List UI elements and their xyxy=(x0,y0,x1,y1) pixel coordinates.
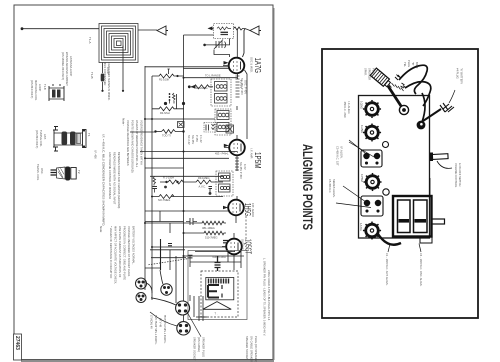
svg-text:TO L RANGE: TO L RANGE xyxy=(205,74,221,78)
svg-text:R4-NSH: R4-NSH xyxy=(160,111,170,115)
speaker unit outer box xyxy=(188,251,247,320)
svg-text:"A" BATTERY: "A" BATTERY xyxy=(460,68,464,84)
IF can trimmers 2 xyxy=(361,196,383,216)
tube socket 1Q5G xyxy=(363,100,381,118)
speaker plug circle xyxy=(177,322,190,335)
wire bottom slant xyxy=(148,259,188,265)
wire rows 150s xyxy=(140,152,237,169)
label B battery xyxy=(403,60,419,69)
label 1A7G xyxy=(250,57,263,73)
svg-text:USE PLATE CURRENT AS INDICATIO: USE PLATE CURRENT AS INDICATION OF xyxy=(118,226,122,278)
note resistance block xyxy=(99,226,136,284)
plug circle mid xyxy=(161,284,172,295)
resistor rows upper xyxy=(130,67,237,134)
arrow grid 1H5G xyxy=(223,206,228,210)
wire top row oscillator section xyxy=(184,27,251,58)
svg-text:BATT.: BATT. xyxy=(415,62,419,69)
svg-text:OSC.: OSC. xyxy=(40,168,44,175)
svg-text:VOLTAGE READINGS ARE BETWEEN: VOLTAGE READINGS ARE BETWEEN xyxy=(126,120,130,166)
label 1P5M xyxy=(250,148,263,169)
svg-text:(ON 843 ONLY): (ON 843 ONLY) xyxy=(35,130,39,148)
svg-text:R9-1MEG: R9-1MEG xyxy=(198,176,210,180)
svg-text:A.V.C.: A.V.C. xyxy=(199,185,207,189)
svg-text:P 45V: P 45V xyxy=(195,135,199,142)
pin ladder 1P5M xyxy=(235,158,239,170)
capacitor on speaker lead xyxy=(215,256,221,271)
label speaker plug panel xyxy=(364,68,376,80)
svg-text:(ON 844 ONLY): (ON 844 ONLY) xyxy=(30,80,34,98)
svg-text:1P5M: 1P5M xyxy=(360,174,364,182)
wire to A battery plug xyxy=(423,109,441,121)
capacitor variable osc C4 xyxy=(214,40,226,50)
leader line volume to gang xyxy=(429,178,431,195)
svg-text:1 2 3 4: 1 2 3 4 xyxy=(239,80,243,88)
svg-text:BATTERY VOLTAGES NORMAL.: BATTERY VOLTAGES NORMAL. xyxy=(132,226,136,265)
svg-text:510-7MEG: 510-7MEG xyxy=(205,236,218,240)
output transformer T5 assembly xyxy=(206,278,234,300)
leader volume control xyxy=(437,161,452,168)
svg-text:OSC & MOD.: OSC & MOD. xyxy=(250,57,254,73)
label C5b series xyxy=(328,179,336,198)
label speaker socket xyxy=(245,336,258,362)
gang capacitor xyxy=(393,196,445,243)
page border left schematic sheet xyxy=(14,5,273,360)
speaker plug ring xyxy=(399,105,408,114)
svg-text:SPEAKER PLUG: SPEAKER PLUG xyxy=(202,337,206,357)
svg-text:I. F. AMP.: I. F. AMP. xyxy=(250,148,254,159)
svg-text:MILS CONDENSER: MILS CONDENSER xyxy=(103,62,107,85)
leader C1 xyxy=(388,244,390,252)
IF transformer T4 xyxy=(215,109,231,135)
svg-text:1A7G: 1A7G xyxy=(253,58,262,74)
IF transformer T3 xyxy=(211,79,231,106)
label osc trans coil xyxy=(36,164,81,181)
svg-text:(ON CABLE): (ON CABLE) xyxy=(197,337,201,352)
svg-text:456 K.C. 2ND: 456 K.C. 2ND xyxy=(343,102,347,118)
svg-text:I.F. ALIGN.: I.F. ALIGN. xyxy=(340,146,344,159)
label values column mid2 xyxy=(158,175,226,259)
label C3 456 KC xyxy=(343,102,351,118)
svg-text:BETWEEN SOCKET AND CHASSIS (GR: BETWEEN SOCKET AND CHASSIS (GROUND) xyxy=(117,152,121,208)
svg-text:PLUG: PLUG xyxy=(407,60,411,67)
speaker cable twisted xyxy=(388,86,401,106)
svg-text:MAY AFFECT OF ACCURATE VOLTAGE: MAY AFFECT OF ACCURATE VOLTAGE CHECK, xyxy=(114,226,118,284)
battery wire fork tips xyxy=(395,75,406,89)
svg-text:T1: T1 xyxy=(87,133,91,137)
volume control shaft xyxy=(430,153,448,162)
tube 1P5M xyxy=(229,140,245,156)
label mils condenser note xyxy=(103,62,111,101)
svg-text:'BVT' YNJ MIN.L 49XP1-: 'BVT' YNJ MIN.L 49XP1- xyxy=(163,315,167,344)
resistor cap cluster left row180 xyxy=(153,177,167,193)
speaker socket circle xyxy=(176,301,190,315)
svg-text:1A7G: 1A7G xyxy=(359,223,363,231)
svg-text:SPKR.: SPKR. xyxy=(364,68,368,76)
svg-text:SVC 'BAM' MIN.L 49XP1-: SVC 'BAM' MIN.L 49XP1- xyxy=(154,315,158,345)
label 1H5G xyxy=(243,203,255,217)
svg-text:CAPACITIES SHOWN IN MMFD.: CAPACITIES SHOWN IN MMFD. xyxy=(107,62,111,101)
label battery plug xyxy=(193,337,206,361)
tube 1A7G xyxy=(229,58,245,74)
padder cap box mid xyxy=(178,122,185,128)
wire loop bottom leads with matching stub coil xyxy=(101,46,124,92)
svg-text:T1-B: T1-B xyxy=(90,72,94,79)
svg-text:K 0V: K 0V xyxy=(243,164,247,170)
svg-text:& ON-OFF SWITCH: & ON-OFF SWITCH xyxy=(458,163,462,186)
svg-text:1ST. AUDIO: 1ST. AUDIO xyxy=(251,203,255,217)
wire tube pin drops xyxy=(222,66,246,271)
wire plate line 1A7G xyxy=(245,70,248,139)
pin label marks 1A7G bottom xyxy=(239,80,243,88)
page shadow right xyxy=(274,8,275,360)
electrolytic can small xyxy=(383,142,389,148)
svg-text:Note: Note xyxy=(99,226,103,233)
leader C5 lines xyxy=(343,186,366,202)
padder cap box right xyxy=(226,125,234,133)
label viewed from pin side xyxy=(150,315,168,345)
arrow grid 1P5M xyxy=(224,144,229,148)
label 1Q5GT xyxy=(241,239,253,254)
antenna loop T1-A square spiral xyxy=(99,24,138,63)
plug circle small B xyxy=(136,293,146,303)
svg-text:F 1.4V: F 1.4V xyxy=(199,135,203,143)
label volume control xyxy=(454,163,462,188)
svg-text:SPEAKER SOCKET: SPEAKER SOCKET xyxy=(193,337,197,361)
arrow grid 1A7G xyxy=(224,61,229,65)
svg-text:LTV(OK) 49: LTV(OK) 49 xyxy=(150,315,154,329)
vertical resistor pair osc xyxy=(170,93,176,104)
wire antenna loop left lead xyxy=(21,27,99,30)
svg-text:SPEAKER SOCKET: SPEAKER SOCKET xyxy=(245,336,249,360)
svg-text:YEL: YEL xyxy=(403,62,407,67)
svg-text:TUNING COIL: TUNING COIL xyxy=(39,130,43,147)
svg-text:27463: 27463 xyxy=(14,336,20,350)
chassis rectangle xyxy=(359,96,430,239)
svg-text:1Q5GT: 1Q5GT xyxy=(244,239,253,254)
label C5 456 KC xyxy=(336,146,344,166)
tube socket 1H5G xyxy=(363,123,381,141)
label ant tuning coil xyxy=(35,130,91,148)
leader C4 xyxy=(419,244,421,253)
can small 2 xyxy=(383,189,389,195)
svg-text:R1-100K: R1-100K xyxy=(159,78,170,82)
svg-text:C5-456 K.C.: C5-456 K.C. xyxy=(328,179,332,194)
svg-text:T .: T . xyxy=(215,312,218,316)
battery wires squiggle xyxy=(399,65,431,122)
svg-text:MTV 49: MTV 49 xyxy=(159,318,163,328)
svg-text:PLUG (ON SPEAKER): PLUG (ON SPEAKER) xyxy=(254,336,258,362)
svg-text:I.F. = 456 K.C. MILS CONDENSE: I.F. = 456 K.C. MILS CONDENSER CAPACITIE… xyxy=(102,134,106,226)
tube socket 1P5M xyxy=(363,173,381,191)
svg-text:T2: T2 xyxy=(77,170,81,174)
svg-text:I.F. ALIGN.: I.F. ALIGN. xyxy=(347,102,351,115)
svg-text:1H5G: 1H5G xyxy=(243,203,252,216)
page shadow bottom xyxy=(21,360,274,362)
svg-text:L. SPEAKER PIN PLUG - LEADS O: L. SPEAKER PIN PLUG - LEADS OF T5, SPEAK… xyxy=(263,258,267,336)
capacitor small row188 xyxy=(209,187,213,195)
tube 1Q5GT xyxy=(226,239,242,255)
antenna symbol left xyxy=(157,26,168,35)
IF can trimmers C3 xyxy=(361,150,382,167)
leader A battery xyxy=(449,90,455,103)
svg-text:VOLTAGE READINGS TAKEN WITH A: VOLTAGE READINGS TAKEN WITH A xyxy=(140,120,144,165)
drive belt arc xyxy=(378,234,401,245)
note voltage readings text block xyxy=(108,118,144,208)
svg-text:453 - P•N•L: 453 - P•N•L xyxy=(215,152,229,156)
speaker cone triangle xyxy=(203,302,231,310)
tube 1H5G xyxy=(228,200,244,216)
svg-text:READINGS MADE WITH NO SIGNAL I: READINGS MADE WITH NO SIGNAL INPUT xyxy=(113,152,117,205)
arrow wave trap xyxy=(208,26,213,30)
svg-text:NO-TMEG: NO-TMEG xyxy=(158,198,170,202)
svg-text:4B1-1MEG: 4B1-1MEG xyxy=(202,226,215,230)
svg-text:UNLESS OTHERWISE INDICATED. AL: UNLESS OTHERWISE INDICATED. ALL xyxy=(135,120,139,168)
svg-text:I.F.-456: I.F.-456 xyxy=(94,150,98,159)
pin ladder 1A7G xyxy=(236,76,240,97)
svg-text:SG 45V: SG 45V xyxy=(191,135,195,144)
arrow avc xyxy=(191,85,196,89)
svg-text:SG 45V P 45V: SG 45V P 45V xyxy=(239,162,243,179)
svg-text:MATCHING COIL: MATCHING COIL xyxy=(34,80,38,101)
label antenna loop text xyxy=(61,52,73,86)
svg-text:C3-456 K.C. 1ST: C3-456 K.C. 1ST xyxy=(336,146,340,166)
svg-text:Note -: Note - xyxy=(122,118,126,126)
wire antenna loop to antenna symbol xyxy=(138,29,157,31)
voltage text columns 1P5M xyxy=(187,135,203,145)
svg-text:R2-2MEG: R2-2MEG xyxy=(196,86,208,90)
pin voltage marks 1P5M xyxy=(239,162,247,179)
svg-text:* VALUES OF RESISTANCE IN CIRC: * VALUES OF RESISTANCE IN CIRCUIT DO xyxy=(109,226,113,278)
label loop matching coil xyxy=(30,80,47,101)
stock number box 27463 xyxy=(14,334,22,360)
tube socket 1A7G xyxy=(363,221,381,239)
svg-text:ON CABLE SPEAKER: ON CABLE SPEAKER xyxy=(250,336,254,362)
svg-text:LOOP: LOOP xyxy=(38,84,42,91)
svg-text:PROGRESS IN CORRECT. GRID AND: PROGRESS IN CORRECT. GRID AND PLATE xyxy=(123,226,127,280)
svg-text:SERIES ALIGN.: SERIES ALIGN. xyxy=(332,179,336,198)
antenna symbol right xyxy=(243,26,262,57)
label rows mid xyxy=(159,74,221,138)
speaker assembly dashed box xyxy=(201,271,238,317)
svg-text:SC 2.4V: SC 2.4V xyxy=(187,135,191,145)
IF transformer T5 small xyxy=(216,171,233,196)
svg-text:(ON MODEL 844 ONLY): (ON MODEL 844 ONLY) xyxy=(61,52,65,80)
wires to plug circles xyxy=(146,270,207,326)
resistor rows mid xyxy=(145,176,244,262)
svg-text:TRANS. COIL: TRANS. COIL xyxy=(36,164,40,181)
osc trans coil T2 xyxy=(51,167,77,181)
svg-text:T1-B: T1-B xyxy=(43,84,47,90)
svg-text:#4 PLUG: #4 PLUG xyxy=(456,68,460,79)
A battery plug xyxy=(440,103,454,112)
wire main vertical buses xyxy=(145,35,184,322)
svg-text:1P5M: 1P5M xyxy=(253,152,262,169)
svg-text:1Q5G: 1Q5G xyxy=(360,101,364,110)
wires lower left xyxy=(145,239,228,303)
svg-text:ANTENNA LOOP: ANTENNA LOOP xyxy=(69,56,73,76)
loop matching coil T1-B xyxy=(49,84,64,101)
label A battery xyxy=(456,68,464,84)
junction dots xyxy=(144,75,185,257)
svg-text:1H5G: 1H5G xyxy=(360,125,364,134)
svg-text:C4 - 1600 K.C. OSC. ALIGN.: C4 - 1600 K.C. OSC. ALIGN. xyxy=(419,253,423,287)
svg-text:C1 - 1600 K.C. ANT. ALIGN.: C1 - 1600 K.C. ANT. ALIGN. xyxy=(385,253,389,286)
svg-text:VOLTAGE MEASURED AT SOCKET LUG: VOLTAGE MEASURED AT SOCKET LUGS. xyxy=(127,226,131,277)
svg-text:TOO TI: TOO TI xyxy=(162,134,171,138)
right panel frame aligning points xyxy=(322,49,478,318)
svg-text:AND VOLUME CONTROL AT MINIMUM.: AND VOLUME CONTROL AT MINIMUM. xyxy=(108,152,112,199)
svg-text:SPEAKER: SPEAKER xyxy=(368,68,372,80)
pin voltage marks 1A7G xyxy=(240,78,248,95)
leader line speaker label xyxy=(186,311,201,337)
small cap symbol row 221 xyxy=(186,218,197,225)
battery cable connector speaker plug assembly xyxy=(370,68,391,88)
leader C3 lines xyxy=(349,140,365,153)
svg-text:VOLUME CONTROL: VOLUME CONTROL xyxy=(454,163,458,188)
svg-text:PLUG: PLUG xyxy=(372,68,376,75)
svg-text:POINTS SHOWN AND CHASSIS (GROU: POINTS SHOWN AND CHASSIS (GROUND) xyxy=(131,120,135,173)
svg-text:60m 6.3mA: 60m 6.3mA xyxy=(213,255,227,259)
plug circle small A xyxy=(136,278,147,289)
svg-text:WOUND AROUND CABINET: WOUND AROUND CABINET xyxy=(65,52,69,86)
svg-text:2-BLU 3-RED 4-YEL 5-BLK PL: 2-BLU 3-RED 4-YEL 5-BLK PLUG TIPS 1-4 xyxy=(267,270,271,321)
svg-text:ALIGNING POINTS: ALIGNING POINTS xyxy=(300,144,315,230)
svg-text:T1-A: T1-A xyxy=(88,37,92,44)
resistor capacitor network left of T4 xyxy=(204,123,216,133)
padder capacitor dashed box top xyxy=(214,24,234,39)
svg-text:R 1-150H: R 1-150H xyxy=(163,175,174,179)
svg-text:ANT.: ANT. xyxy=(43,134,47,140)
ant tuning coil T1 xyxy=(53,127,86,152)
svg-text:"B": "B" xyxy=(411,62,415,66)
cable blob grommet xyxy=(417,121,426,130)
